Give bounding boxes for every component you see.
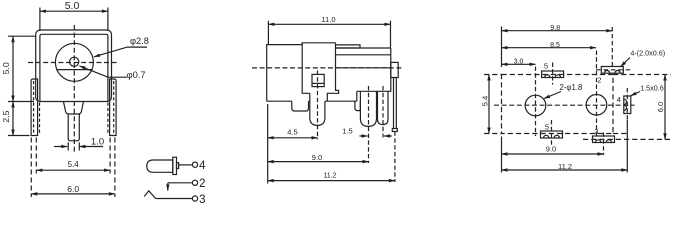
label 1.5x0.6 leader [631, 92, 641, 96]
switch lever [144, 191, 155, 199]
center pin [68, 114, 79, 141]
axis dashed centerline [252, 67, 403, 69]
svg-text:4.5: 4.5 [287, 127, 297, 136]
top tab [336, 45, 361, 48]
dim 11.2: line [268, 180, 395, 182]
pin 2 terminal circle [192, 180, 197, 185]
rear shell seam 2 [336, 67, 391, 69]
vertical dashed centerline right circle [596, 51, 598, 137]
svg-text:11.2: 11.2 [558, 162, 572, 171]
svg-text:2: 2 [199, 178, 205, 190]
slot pin3 bottom right [593, 136, 615, 143]
bottom edge left segment [267, 100, 292, 102]
bottom edge tiny segment [309, 100, 310, 102]
center pin dashed centerline [317, 71, 319, 140]
svg-text:11.0: 11.0 [321, 15, 335, 24]
dim 11.0: line [268, 23, 390, 25]
svg-text:4: 4 [617, 95, 621, 104]
hidden body edge in left lug (dashed) [33, 81, 35, 135]
svg-text:9.0: 9.0 [312, 153, 322, 162]
leg1 dashed centerline [368, 86, 370, 163]
dim 2.5 left: extension line [8, 135, 30, 137]
svg-text:2: 2 [597, 76, 601, 85]
wire to pin 2 [168, 182, 193, 184]
dim 1.0 pin: arrow segments [54, 146, 67, 148]
jack barrel circle phi2.8 [55, 43, 93, 81]
slot pin5 bottom [541, 131, 563, 138]
left mounting lug [31, 79, 37, 136]
svg-text:4-(2.0x0.6): 4-(2.0x0.6) [630, 49, 665, 58]
dim 11.2 bottom: line [502, 169, 628, 171]
body outer rounded rect (front view) [36, 30, 112, 102]
dim 9.0: line [268, 161, 369, 163]
front plate top edge [267, 45, 303, 102]
slot pin2 top right [601, 67, 623, 74]
svg-text:1.5: 1.5 [342, 126, 352, 135]
slot2 row dashed centerline [596, 69, 633, 71]
center block left edge with step to pin [302, 43, 310, 94]
dim 5.0 top: line [40, 10, 108, 12]
plug barrel [147, 160, 173, 172]
wire stub to pin 4 [179, 164, 193, 166]
slot4 dashed centerline and 11.2 extension [626, 88, 628, 120]
dim 11.0: extension lines [267, 21, 269, 44]
dim 1.0 pin: extension lines [67, 142, 69, 150]
right mounting lug [110, 79, 117, 136]
shared left extension line [267, 104, 269, 184]
foot 1 [292, 101, 309, 111]
footprint outline dashed rect [502, 75, 614, 134]
center block top [302, 43, 335, 45]
pin 4 terminal circle [192, 162, 197, 167]
foot 2 [355, 101, 360, 110]
dim 5.0 top: extension lines [39, 8, 41, 32]
rear bottom edge [357, 90, 391, 92]
svg-text:3: 3 [594, 127, 598, 136]
square window [312, 74, 324, 86]
vertical dashed centerline top slot5 [552, 63, 554, 85]
dim 9.0 bottom: line [502, 153, 604, 155]
svg-text:1.0: 1.0 [91, 137, 104, 148]
slot pin4 vertical 1.5x0.6 [624, 96, 631, 114]
left solid extension line top [501, 27, 503, 68]
dim 6.0 right: line [664, 75, 666, 140]
vertical dashed centerline [73, 25, 75, 153]
slot pin2 end arcs [604, 70, 620, 73]
dim 5.4 left: extension dashes [484, 74, 501, 76]
center contact pin side view [310, 93, 325, 125]
label phi2.8 leader [94, 47, 147, 57]
dim 3.0: line [502, 63, 536, 65]
svg-text:φ0.7: φ0.7 [127, 70, 146, 80]
svg-text:5: 5 [545, 123, 549, 132]
bottom edge mid segment [325, 100, 357, 102]
label phi0.7 leader [80, 66, 128, 77]
slot pin5 top [542, 71, 564, 78]
slot pin5 bottom end arcs [544, 135, 560, 138]
left solid extension line bottom [501, 137, 503, 173]
svg-text:6.0: 6.0 [67, 184, 79, 194]
svg-text:5.4: 5.4 [480, 96, 489, 106]
svg-text:11.2: 11.2 [323, 173, 336, 180]
rect top dashed extension to right [613, 74, 671, 76]
label 2-phi1.8 leader [544, 92, 561, 99]
rear terminal top rect [391, 62, 398, 77]
slot pin5 top end arcs [545, 75, 561, 78]
center block right edge staircase [327, 43, 338, 102]
switch drop arrow from pin 2 wire [167, 183, 169, 191]
pin 3 terminal circle [192, 196, 197, 201]
vertical dashed centerline left circle [535, 67, 537, 137]
rear pin dashed centerline [394, 132, 396, 183]
plug flange [173, 157, 177, 174]
hole circle left 2-phi1.8 [525, 95, 546, 116]
center pin shoulder [64, 102, 84, 114]
step between front and rear bottoms [356, 91, 358, 101]
dim 6.0 bottom: extension lines dashed [30, 138, 32, 198]
svg-text:1.5x0.6: 1.5x0.6 [640, 83, 664, 92]
slot3 row dashed line to right [583, 138, 670, 140]
hidden body edge in right lug (dashed) [113, 81, 115, 135]
svg-text:5.0: 5.0 [1, 62, 11, 74]
rear terminal pin foot [392, 129, 397, 132]
square window inner line [312, 82, 324, 84]
svg-text:3: 3 [199, 194, 205, 205]
dim 5.0 left: line [12, 36, 14, 101]
label 4-(2.0x0.6) leader [621, 58, 631, 67]
rear shell top edge [336, 47, 391, 49]
vertical dashed centerline slot3 [603, 133, 605, 156]
wire to pin 3 [156, 198, 193, 200]
rear terminal pin [394, 78, 397, 129]
svg-text:6.0: 6.0 [656, 102, 665, 112]
vertical dashed centerline bottom slot5 [551, 120, 553, 146]
leg2 dashed centerline [382, 86, 384, 138]
dim 1.5: arrow segments [360, 135, 368, 137]
svg-text:φ2.8: φ2.8 [130, 36, 149, 46]
dim 6.0 bottom: line [31, 193, 115, 195]
center pin hole phi0.7 [70, 57, 79, 66]
right dashed extension line 9.8 to slot2 [611, 27, 613, 66]
svg-text:5.4: 5.4 [68, 160, 80, 169]
rect bottom dashed extension to right [613, 133, 628, 135]
slot pin4 end arcs [624, 99, 627, 110]
svg-text:2.5: 2.5 [1, 110, 11, 122]
hidden inner wall edge below body right (dashed) [107, 103, 109, 135]
hidden inner wall edge below body (dashed) [39, 103, 41, 135]
dim 5.4 left: line [488, 75, 490, 134]
dim 9.8: line [502, 30, 613, 32]
dim 2.5 left: line [12, 102, 14, 136]
rear shell right edge [390, 48, 392, 91]
horizontal dashed centerline [28, 62, 118, 64]
svg-text:5.0: 5.0 [65, 0, 80, 12]
rear shell seam 1 [336, 54, 391, 56]
svg-text:2-φ1.8: 2-φ1.8 [560, 83, 583, 92]
body inner rect 5.0x5.0 face [40, 34, 108, 101]
svg-text:5: 5 [544, 61, 548, 70]
hole circle right [586, 95, 607, 116]
slot pin3 end arcs [596, 140, 612, 143]
svg-text:8.5: 8.5 [550, 42, 560, 49]
svg-text:9.8: 9.8 [550, 25, 560, 32]
chord line inside barrel [57, 69, 92, 71]
svg-text:4: 4 [199, 160, 206, 172]
horizontal dashed centerline through holes [494, 104, 635, 106]
plug stub [177, 163, 179, 169]
dim 4.5: line [268, 137, 318, 139]
dim 8.5: line [502, 47, 597, 49]
dim 5.4 bottom: extension lines dashed [35, 138, 37, 174]
rear leg 2 (narrow) [378, 91, 389, 124]
svg-text:3.0: 3.0 [514, 58, 524, 65]
rear leg 1 (wide) [360, 91, 376, 126]
dim 5.4 bottom: line [36, 169, 110, 171]
svg-text:9.0: 9.0 [546, 145, 556, 154]
dim 5.0 left: extension lines [8, 35, 36, 37]
